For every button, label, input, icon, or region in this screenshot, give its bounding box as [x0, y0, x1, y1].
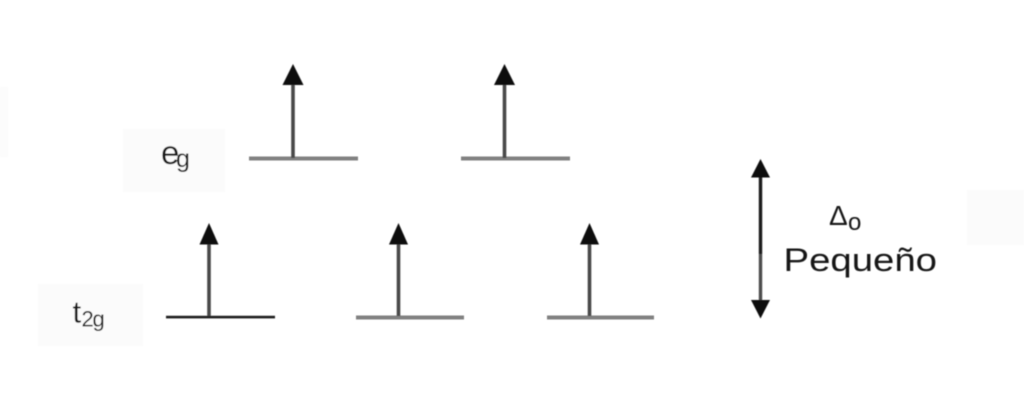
electron arrow on t2g line 1 [200, 223, 219, 316]
svg-text:Δ: Δ [829, 200, 848, 231]
t2g orbital line 2 [356, 316, 464, 320]
e_g orbital line 2 [461, 157, 570, 161]
svg-text:g: g [176, 145, 190, 173]
svg-text:Pequeño: Pequeño [784, 242, 938, 278]
t2g orbital line 1 (thin dark) [166, 316, 275, 319]
label Delta_o [829, 200, 861, 236]
faint box behind t2g label [38, 284, 143, 346]
faint patch right of Pequeno [967, 190, 1024, 245]
e_g orbital line 1 [249, 157, 358, 161]
electron arrow on t2g line 3 [580, 223, 599, 316]
svg-text:o: o [848, 209, 861, 236]
label e_g [161, 134, 190, 173]
electron arrow on e_g line 1 [283, 64, 304, 158]
faint box behind e_g label [123, 129, 225, 192]
t2g orbital line 3 [547, 316, 654, 320]
svg-text:t: t [73, 295, 82, 330]
double-headed arrow for crystal field splitting [751, 159, 770, 319]
electron arrow on e_g line 2 [494, 64, 515, 158]
label t_2g [73, 295, 105, 332]
faint left-edge scan strip [0, 87, 8, 157]
svg-text:g: g [93, 306, 105, 331]
electron arrow on t2g line 2 [389, 223, 408, 316]
